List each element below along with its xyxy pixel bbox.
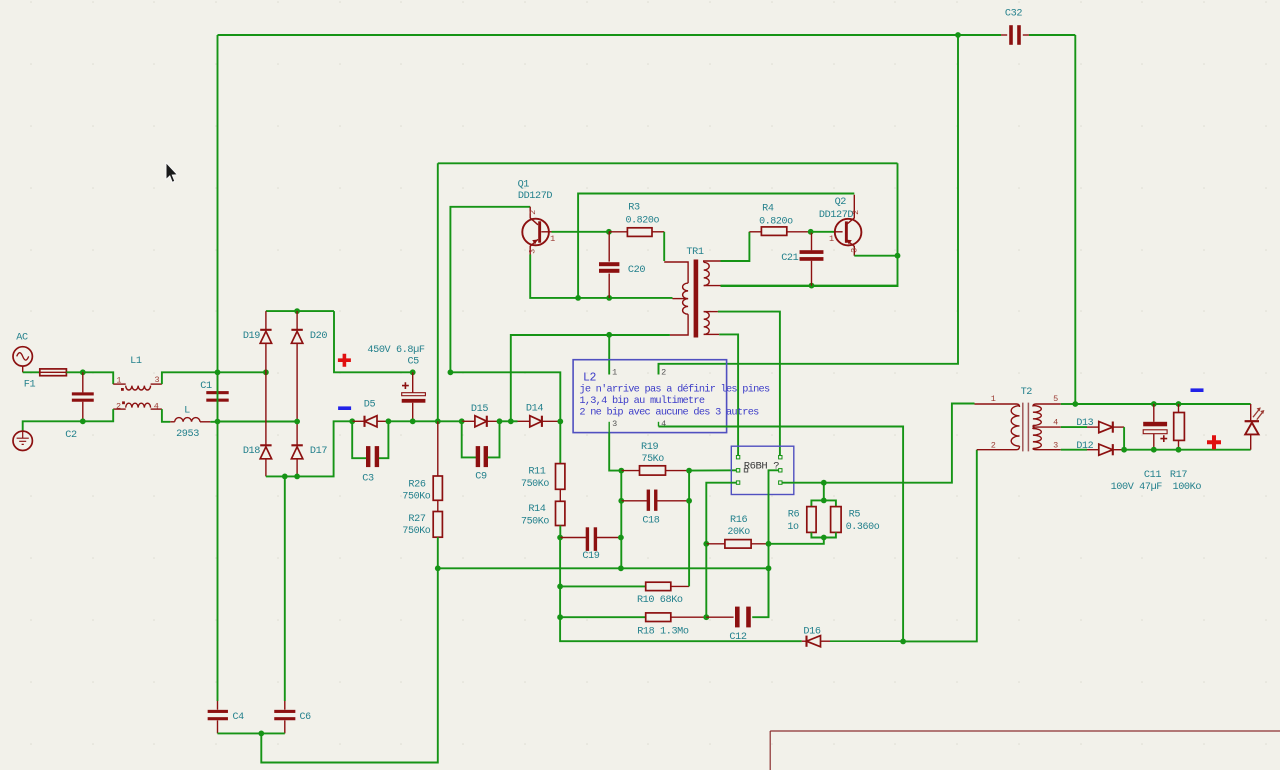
wire bottom return xyxy=(261,568,438,762)
wire R26 node to D15 xyxy=(438,420,462,422)
wire R14 bottom xyxy=(559,526,561,538)
R6BH pin top-left xyxy=(736,456,739,459)
wire top rail xyxy=(218,34,959,36)
T2 secondary bottom winding xyxy=(1033,427,1061,429)
junction D14 out xyxy=(557,419,563,425)
diode D17 xyxy=(291,447,302,459)
junction Q2 emitter node xyxy=(895,253,901,259)
svg-text:2: 2 xyxy=(661,367,666,377)
wire Q2 emitter xyxy=(854,255,897,257)
junction C20 bottom xyxy=(606,295,612,301)
wire R10 left link xyxy=(559,538,561,587)
junction D15 left xyxy=(459,418,465,424)
plus symbol output xyxy=(1207,435,1221,449)
resistor R14 xyxy=(559,489,561,501)
junction bridge right AC xyxy=(294,419,300,425)
svg-text:DD127D: DD127D xyxy=(819,210,854,221)
svg-text:R17: R17 xyxy=(1170,470,1187,481)
junction R5R6 bottom xyxy=(821,535,827,541)
wire T2 pin4 to D13 xyxy=(1061,426,1087,428)
svg-text:D20: D20 xyxy=(310,331,327,342)
junction C18 right xyxy=(686,498,692,504)
junction bridge left AC xyxy=(263,369,269,375)
svg-text:1,3,4 bip au multimetre: 1,3,4 bip au multimetre xyxy=(579,395,704,407)
junction Q2 base node xyxy=(808,229,814,235)
wire D18 bottom xyxy=(265,459,267,477)
TR1 right bottom winding xyxy=(704,311,718,313)
junction Q2 collector branch xyxy=(575,295,581,301)
svg-text:C11: C11 xyxy=(1144,470,1161,481)
capacitor C19 xyxy=(586,527,589,551)
R6BH pin mid-right xyxy=(779,469,782,472)
junction R5R6 top xyxy=(821,498,827,504)
capacitor C18 xyxy=(621,500,647,502)
svg-text:0.820o: 0.820o xyxy=(759,217,793,228)
junction R3 left xyxy=(606,229,612,235)
svg-text:D17: D17 xyxy=(310,446,327,457)
svg-text:R6: R6 xyxy=(788,510,800,521)
wire mid vertical left xyxy=(437,163,439,421)
svg-text:D16: D16 xyxy=(803,627,820,638)
wire bottom rail to T2 pin2 xyxy=(903,450,977,642)
wire T2 pin5 out xyxy=(1061,403,1076,405)
wire Q2 base xyxy=(811,231,835,233)
wire R5R6 top bracket xyxy=(811,500,836,506)
wire C1 top to bridge xyxy=(218,371,266,373)
svg-text:1: 1 xyxy=(550,234,555,244)
junction node C2 bottom xyxy=(80,418,86,424)
junction R19 right xyxy=(686,468,692,474)
R6BH small pin mark xyxy=(744,469,747,472)
wire bridge top xyxy=(266,310,334,312)
wire minus rail D5 area xyxy=(352,420,353,422)
svg-text:3: 3 xyxy=(850,248,860,253)
svg-text:D15: D15 xyxy=(471,404,488,415)
wire bridge right vertical xyxy=(296,311,298,329)
svg-text:C6: C6 xyxy=(300,712,312,723)
wire Q1 base to R3 xyxy=(552,231,609,233)
svg-text:R4: R4 xyxy=(762,203,774,214)
junction R18 right xyxy=(703,614,709,620)
wire F1 to node xyxy=(66,371,82,373)
wire L1 pin3 up xyxy=(162,372,218,384)
diode D19 xyxy=(260,331,271,343)
junction R26 node xyxy=(435,418,441,424)
junction R18 left xyxy=(557,614,563,620)
svg-text:C3: C3 xyxy=(362,473,374,484)
wire to D14 xyxy=(511,420,518,422)
svg-text:Q1: Q1 xyxy=(518,180,530,191)
capacitor C4 xyxy=(217,701,219,710)
junction C19 right xyxy=(618,535,624,541)
TR1 left winding xyxy=(664,262,688,283)
svg-text:20Ko: 20Ko xyxy=(727,527,750,538)
junction R17 bottom xyxy=(1176,447,1182,453)
svg-text:0.820o: 0.820o xyxy=(625,216,659,227)
wire L2 pin1 drop xyxy=(608,335,610,375)
capacitor C1 xyxy=(217,372,219,391)
wire R5R6 top stem xyxy=(823,483,825,501)
junction node C2 top xyxy=(80,369,86,375)
svg-text:2 ne bip avec aucune des 3 aut: 2 ne bip avec aucune des 3 autres xyxy=(579,406,759,418)
svg-text:75Ko: 75Ko xyxy=(641,454,664,465)
wire R5R6 bottom bracket xyxy=(811,532,836,537)
svg-text:D19: D19 xyxy=(243,331,260,342)
wire R10 right up xyxy=(688,501,690,587)
AC source xyxy=(13,347,32,366)
wire bridge top to plus rail xyxy=(334,311,413,372)
svg-text:F1: F1 xyxy=(24,380,36,391)
wire Q1 collector feed xyxy=(450,207,530,372)
svg-text:C20: C20 xyxy=(628,265,645,276)
junction D5 left xyxy=(349,418,355,424)
junction L2 pin1 branch xyxy=(606,332,612,338)
wire node to L1 xyxy=(83,372,113,384)
svg-text:Q2: Q2 xyxy=(835,197,847,208)
diode D16 xyxy=(807,636,821,647)
wire emitter rail to TR1 tap xyxy=(578,297,672,299)
wire R6BH bot-left xyxy=(706,483,736,544)
wire L2 pin3 to R19 xyxy=(609,432,621,470)
mouse cursor xyxy=(166,163,178,183)
wire TR1 primary bottom xyxy=(511,335,670,421)
junction plus rail Q1 branch xyxy=(448,369,454,375)
wire C32 node down xyxy=(659,35,959,375)
svg-text:D14: D14 xyxy=(526,403,543,414)
wire R6BH mid-right jog xyxy=(769,470,779,544)
svg-text:C21: C21 xyxy=(781,253,798,264)
LED D out xyxy=(1250,404,1252,421)
svg-text:750Ko: 750Ko xyxy=(402,526,430,537)
resistor R11 xyxy=(559,421,561,463)
minus symbol DC bus xyxy=(338,406,351,410)
svg-text:L1: L1 xyxy=(130,356,142,367)
capacitor C6 xyxy=(284,701,286,710)
svg-text:C4: C4 xyxy=(233,712,245,723)
wire output top rail xyxy=(1075,403,1250,405)
wire L to C1 bottom xyxy=(210,421,217,423)
L2 pin 2 tick xyxy=(658,364,660,375)
capacitor C20 xyxy=(608,232,610,262)
diode D12 xyxy=(1087,449,1099,451)
svg-text:750Ko: 750Ko xyxy=(521,479,549,490)
wire feedback row xyxy=(438,567,769,569)
junction sense-feedback cross xyxy=(766,565,772,571)
junction C21 bottom xyxy=(809,283,815,289)
wire C18 branch xyxy=(620,471,622,501)
diode D5 xyxy=(352,420,364,422)
svg-text:C5: C5 xyxy=(407,356,419,367)
junction R27 bottom xyxy=(435,565,441,571)
wire plus rail to D14 node xyxy=(450,372,560,421)
svg-text:750Ko: 750Ko xyxy=(402,491,430,502)
wire bridge bottom xyxy=(266,421,352,476)
diode D20 xyxy=(291,331,302,343)
resistor R27 xyxy=(437,500,439,511)
resistor R18 xyxy=(560,616,646,618)
sheet border other page xyxy=(770,731,1280,770)
capacitor C12 xyxy=(706,616,733,618)
junction C5 bottom xyxy=(410,418,416,424)
svg-text:1: 1 xyxy=(612,367,617,377)
resistor R10 xyxy=(560,585,646,587)
junction C4C6 bottom xyxy=(258,731,264,737)
wire R3 to TR1 xyxy=(663,232,665,261)
svg-text:1: 1 xyxy=(991,394,996,404)
capacitor C2 xyxy=(82,372,84,392)
wire R6BH bot-right to T2 xyxy=(782,404,975,483)
svg-text:D5: D5 xyxy=(364,400,376,411)
wire sense node vertical xyxy=(768,544,770,617)
svg-text:2: 2 xyxy=(851,210,861,215)
junction D20 top xyxy=(294,308,300,314)
wire C2 node to L1 pin2 xyxy=(83,409,113,421)
junction C18 left xyxy=(618,498,624,504)
svg-text:R18 1.3Mo: R18 1.3Mo xyxy=(637,627,689,638)
wire Q1 emitter down xyxy=(530,255,578,298)
R6BH pin top-right xyxy=(779,456,782,459)
resistor R6 xyxy=(807,507,816,533)
svg-text:L: L xyxy=(184,405,190,416)
resistor R19 xyxy=(621,470,639,472)
wire D13 out down xyxy=(1123,427,1125,450)
svg-text:3: 3 xyxy=(1053,440,1058,450)
svg-text:4: 4 xyxy=(1053,418,1058,428)
svg-text:2: 2 xyxy=(991,440,996,450)
junction D12 out xyxy=(1121,447,1127,453)
junction T2 pin5 C32 xyxy=(1072,401,1078,407)
wire C18 vert link xyxy=(688,471,690,501)
wire TR1 aux top xyxy=(718,312,780,456)
ground xyxy=(13,431,32,450)
wire bridge left vertical xyxy=(265,311,267,329)
svg-text:R3: R3 xyxy=(628,203,640,214)
svg-text:C19: C19 xyxy=(582,551,599,562)
junction bottom rail L2pin4 xyxy=(900,639,906,645)
wire T2 pin3 to D12 xyxy=(1061,449,1087,451)
svg-text:je n'arrive pas a définir les: je n'arrive pas a définir les pines xyxy=(579,384,770,396)
junction C1 bottom xyxy=(215,419,221,425)
junction TR1 primary return xyxy=(508,418,514,424)
resistor R17 xyxy=(1178,404,1180,413)
L2 pin 4 tick xyxy=(658,422,660,427)
sheet L2 box xyxy=(573,360,727,433)
transformer T2 core xyxy=(1023,403,1029,452)
wire C5 to R26 node xyxy=(413,420,438,422)
junction D17 bottom xyxy=(294,474,300,480)
inductor L1 winding 1-3 xyxy=(113,383,126,385)
wire mid horizontal xyxy=(438,162,898,164)
junction R14 bottom xyxy=(557,535,563,541)
wire R5R6 bottom stem xyxy=(769,538,824,544)
T2 primary winding xyxy=(975,404,1020,407)
svg-text:5: 5 xyxy=(1053,394,1058,404)
wire AC to F1 xyxy=(23,371,40,373)
resistor R26 xyxy=(437,421,439,476)
diode D14 xyxy=(518,420,530,422)
junction D5 right xyxy=(386,418,392,424)
diode D13 xyxy=(1087,426,1099,428)
plus symbol DC bus xyxy=(338,354,351,367)
capacitor C3 xyxy=(352,421,366,458)
wire Q2 collector link xyxy=(578,194,854,298)
component R6BH box xyxy=(731,446,794,494)
wire C32 to T2 pin5 xyxy=(1074,35,1076,404)
svg-text:100V 47µF: 100V 47µF xyxy=(1111,482,1163,493)
T2 secondary top winding xyxy=(1033,404,1061,407)
svg-text:C32: C32 xyxy=(1005,8,1022,19)
svg-text:3: 3 xyxy=(612,419,617,429)
junction R16 left xyxy=(703,541,709,547)
junction C5 top xyxy=(410,369,416,375)
wire TR1 aux bottom xyxy=(719,334,738,455)
wire R18 left link xyxy=(559,586,561,617)
minus symbol output xyxy=(1191,388,1204,392)
svg-text:750Ko: 750Ko xyxy=(521,517,549,528)
svg-text:R27: R27 xyxy=(408,514,425,525)
capacitor C5 xyxy=(412,372,414,392)
R6BH pin mid-left xyxy=(736,469,739,472)
svg-text:R14: R14 xyxy=(528,504,545,515)
fuse F1 xyxy=(40,369,67,376)
svg-text:3: 3 xyxy=(528,249,538,254)
junction C1 top xyxy=(215,369,221,375)
L2 pin 1 tick xyxy=(608,360,610,374)
svg-text:C1: C1 xyxy=(200,381,212,392)
junction R16 right xyxy=(766,541,772,547)
wire mid vertical right xyxy=(721,163,898,286)
wire node to ground xyxy=(23,421,83,431)
svg-text:D18: D18 xyxy=(243,446,260,457)
junction C11 top xyxy=(1151,401,1157,407)
wire TR1 mid to Q2 net xyxy=(721,285,898,287)
wire TR1 to R4 xyxy=(721,232,750,261)
svg-text:2953: 2953 xyxy=(176,429,199,440)
svg-text:R26: R26 xyxy=(408,479,425,490)
wire output bottom rail xyxy=(1124,449,1251,451)
wire C18-C19 vertical xyxy=(620,501,622,569)
junction C32 left node xyxy=(955,32,961,38)
transistor Q2 xyxy=(835,219,862,246)
svg-text:0.360o: 0.360o xyxy=(846,522,880,533)
junction mid feedback node xyxy=(618,565,624,571)
resistor R5 xyxy=(831,507,842,533)
svg-text:R5: R5 xyxy=(849,510,861,521)
R6BH pin bot-left xyxy=(736,481,739,484)
junction C6 branch xyxy=(282,474,288,480)
svg-text:R19: R19 xyxy=(641,442,658,453)
svg-text:2: 2 xyxy=(528,210,538,215)
wire D17 bottom xyxy=(296,459,298,477)
capacitor C9 xyxy=(462,421,476,457)
wire R16 node down xyxy=(705,544,707,617)
resistor R3 xyxy=(609,231,628,233)
svg-text:L2: L2 xyxy=(583,371,597,384)
junction C11 bottom xyxy=(1151,447,1157,453)
svg-text:DD127D: DD127D xyxy=(518,191,553,202)
svg-text:D13: D13 xyxy=(1076,418,1093,429)
svg-text:450V 6.8µF: 450V 6.8µF xyxy=(367,345,424,356)
transistor Q1 xyxy=(522,219,549,246)
svg-text:C9: C9 xyxy=(475,472,487,483)
svg-text:D12: D12 xyxy=(1076,441,1093,452)
capacitor C21 xyxy=(811,232,813,251)
wire C19 left link xyxy=(560,537,587,539)
junction R19 left xyxy=(618,468,624,474)
svg-text:C2: C2 xyxy=(65,430,77,441)
wire C6 branch xyxy=(284,476,286,701)
TR1 right top winding xyxy=(704,261,721,262)
wire D15 to vert xyxy=(500,420,511,422)
wire left tall vertical xyxy=(217,35,219,701)
wire L1 pin4 down xyxy=(162,409,170,422)
svg-text:C18: C18 xyxy=(642,516,659,527)
resistor R4 xyxy=(749,231,761,233)
wire D5 to C5 xyxy=(388,420,412,422)
inductor L1 winding 2-4 xyxy=(113,408,126,410)
svg-text:AC: AC xyxy=(16,333,28,344)
capacitor C32 xyxy=(958,34,1001,36)
svg-text:100Ko: 100Ko xyxy=(1173,482,1202,493)
L2 pin 3 tick xyxy=(608,422,610,432)
junction R5R6 top branch xyxy=(821,480,827,486)
svg-text:TR1: TR1 xyxy=(686,247,703,258)
wire R19 to R6BH pin xyxy=(689,469,736,471)
wire bottom rail left xyxy=(560,617,802,641)
transformer TR1 core xyxy=(694,260,699,338)
svg-text:1: 1 xyxy=(829,234,834,244)
svg-text:R11: R11 xyxy=(528,466,545,477)
R6BH pin bot-right xyxy=(779,481,782,484)
junction R17 top xyxy=(1176,401,1182,407)
inductor L 2953 xyxy=(170,421,174,423)
junction R10 left xyxy=(557,584,563,590)
wire C4 C6 join xyxy=(218,732,285,734)
svg-text:R10 68Ko: R10 68Ko xyxy=(637,595,683,606)
wire L2 pin4 long xyxy=(659,427,904,642)
capacitor C11 xyxy=(1153,404,1155,422)
junction D15 right xyxy=(497,418,503,424)
svg-text:T2: T2 xyxy=(1021,387,1033,398)
wire C1 bottom to bridge right xyxy=(218,421,298,423)
svg-text:R16: R16 xyxy=(730,515,747,526)
svg-text:1o: 1o xyxy=(787,522,799,533)
diode D15 xyxy=(462,420,475,422)
diode D18 xyxy=(260,447,271,459)
resistor R16 xyxy=(706,543,725,545)
